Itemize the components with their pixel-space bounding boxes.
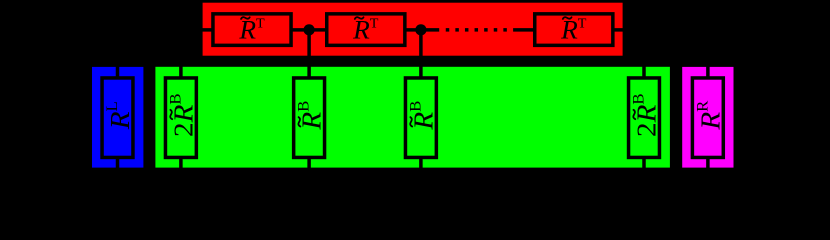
- resistor 2RB1 body: [165, 78, 196, 158]
- wire between node B and dotted break: [405, 28, 439, 32]
- node A junction dot: [304, 24, 315, 35]
- wire bottom stub of RL: [116, 158, 120, 179]
- label RT2 value: [352, 15, 379, 45]
- svg-text:R: R: [169, 105, 199, 124]
- svg-text:L: L: [104, 101, 121, 111]
- resistor RT2 body: [327, 14, 405, 45]
- label RB1 value: [295, 100, 327, 130]
- svg-text:B: B: [167, 93, 184, 104]
- svg-text:2: 2: [632, 122, 662, 137]
- wire top stub of 2RB2: [642, 65, 646, 78]
- resistor RT1 body: [213, 14, 291, 45]
- label RT1 value: [238, 15, 265, 45]
- wire top stub of RL: [116, 30, 120, 78]
- wire between dotted break and RT3: [513, 28, 535, 32]
- svg-text:R: R: [694, 100, 711, 111]
- svg-text:R: R: [632, 105, 662, 124]
- resistor RB1 body: [294, 78, 325, 158]
- wire bottom stub of RB1: [307, 158, 311, 179]
- resistor RT3 body: [535, 14, 613, 45]
- wire top stub of RR: [706, 30, 710, 78]
- svg-text:B: B: [295, 100, 312, 111]
- node B junction dot: [415, 24, 426, 35]
- dotted wire break: [446, 28, 507, 32]
- right termination background (magenta): [682, 67, 733, 168]
- wire top rail left (from node L into RT1): [118, 28, 215, 32]
- label RB2 value: [407, 100, 439, 130]
- wire bottom rail: [118, 176, 708, 180]
- wire bottom stub of RB2: [419, 158, 423, 179]
- label RT3 value: [560, 15, 587, 45]
- svg-text:T: T: [256, 17, 265, 32]
- bottom shunt branch background (green): [155, 67, 670, 168]
- svg-text:T: T: [578, 17, 587, 32]
- svg-text:B: B: [407, 100, 424, 111]
- svg-text:T: T: [370, 17, 379, 32]
- svg-text:R: R: [298, 112, 328, 131]
- wire bottom stub of 2RB1: [179, 158, 183, 179]
- label 2RB1 value: [167, 93, 199, 137]
- svg-text:R: R: [409, 112, 439, 131]
- resistor RL body: [102, 78, 133, 158]
- left termination background (blue): [92, 67, 143, 168]
- svg-text:R: R: [696, 112, 726, 131]
- wire node A drop to RB1: [307, 30, 311, 78]
- svg-text:R: R: [106, 111, 136, 130]
- svg-text:2: 2: [169, 122, 199, 137]
- resistor 2RB2 body: [629, 78, 660, 158]
- wire node B drop to RB2: [419, 30, 423, 78]
- wire top rail right (from RT3 to node R): [613, 28, 708, 32]
- wire between RT1 and node A: [291, 28, 327, 32]
- label 2RB2 value: [630, 93, 662, 137]
- label RL value: [104, 101, 136, 130]
- wire bottom stub of RR: [706, 158, 710, 179]
- wire bottom stub of 2RB2: [642, 158, 646, 179]
- wire top stub of 2RB1: [179, 65, 183, 78]
- label RR value: [694, 100, 726, 130]
- resistor RR body: [692, 78, 723, 158]
- top series branch background (red): [203, 3, 623, 56]
- svg-text:B: B: [630, 93, 647, 104]
- resistor RB2 body: [405, 78, 436, 158]
